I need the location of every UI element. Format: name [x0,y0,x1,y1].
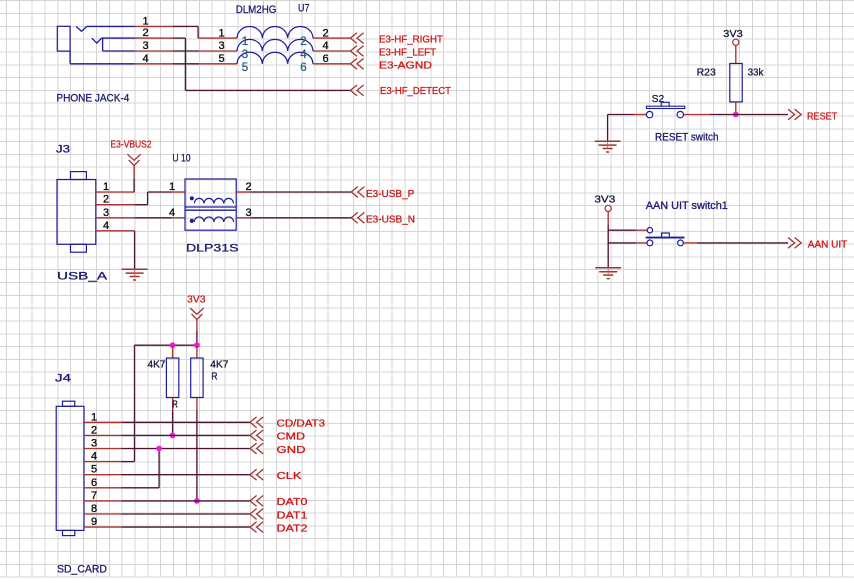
svg-text:3V3: 3V3 [187,295,206,306]
svg-text:8: 8 [91,503,97,515]
svg-text:RESET switch: RESET switch [655,131,719,143]
svg-text:2: 2 [300,36,306,48]
svg-text:J4: J4 [55,372,71,384]
svg-text:4: 4 [169,207,175,219]
svg-text:1: 1 [142,15,148,27]
svg-text:R23: R23 [697,67,717,78]
svg-text:6: 6 [322,53,328,65]
svg-text:2: 2 [91,424,97,436]
svg-text:6: 6 [91,477,97,489]
svg-text:S2: S2 [652,94,665,105]
svg-text:CD/DAT3: CD/DAT3 [277,419,326,430]
svg-text:J3: J3 [56,144,70,156]
svg-text:E3-AGND: E3-AGND [379,60,432,71]
svg-text:2: 2 [103,194,109,206]
svg-text:3: 3 [91,438,97,450]
svg-text:4: 4 [322,40,328,52]
svg-text:E3-USB_P: E3-USB_P [366,189,415,200]
svg-text:5: 5 [91,464,97,476]
svg-text:GND: GND [277,445,306,456]
svg-text:2: 2 [245,181,251,193]
svg-text:E3-HF_LEFT: E3-HF_LEFT [379,48,436,59]
svg-text:6: 6 [300,62,306,74]
svg-text:3: 3 [218,40,224,52]
svg-text:3: 3 [103,207,109,219]
svg-text:U 10: U 10 [172,152,190,164]
svg-text:DLP31S: DLP31S [186,242,239,254]
svg-text:E3-HF_DETECT: E3-HF_DETECT [380,86,451,97]
svg-text:5: 5 [242,62,248,74]
svg-text:2: 2 [142,27,148,39]
svg-text:9: 9 [91,516,97,528]
svg-text:DAT0: DAT0 [277,497,309,508]
svg-text:3: 3 [245,207,251,219]
svg-text:1: 1 [242,36,248,48]
svg-text:PHONE JACK-4: PHONE JACK-4 [56,93,129,105]
svg-text:3V3: 3V3 [723,29,743,40]
svg-text:1: 1 [91,411,97,423]
svg-text:3V3: 3V3 [594,195,615,206]
svg-text:4: 4 [142,53,148,65]
svg-text:4: 4 [300,49,307,61]
svg-text:R: R [172,399,178,410]
svg-text:SD_CARD: SD_CARD [57,563,107,575]
svg-text:DAT2: DAT2 [277,523,309,534]
svg-text:AAN UIT switch1: AAN UIT switch1 [646,200,728,212]
svg-text:4K7: 4K7 [148,359,166,370]
svg-text:4: 4 [91,451,97,463]
svg-text:DAT1: DAT1 [277,510,309,521]
svg-text:RESET: RESET [807,111,837,122]
svg-text:1: 1 [218,27,224,39]
svg-text:R: R [211,371,217,382]
svg-text:DLM2HG: DLM2HG [236,4,277,16]
svg-text:AAN UIT: AAN UIT [808,239,848,250]
svg-text:3: 3 [142,40,148,52]
svg-text:CMD: CMD [277,432,306,443]
svg-text:1: 1 [169,181,175,193]
svg-text:E3-USB_N: E3-USB_N [366,215,415,226]
svg-text:4: 4 [103,220,109,232]
svg-text:CLK: CLK [277,471,302,482]
svg-text:5: 5 [218,53,224,65]
svg-text:7: 7 [91,490,97,502]
svg-text:4K7: 4K7 [210,359,229,370]
svg-text:USB_A: USB_A [57,271,108,283]
svg-text:E3-VBUS2: E3-VBUS2 [111,140,152,151]
svg-text:U7: U7 [298,3,309,15]
svg-text:E3-HF_RIGHT: E3-HF_RIGHT [379,35,443,46]
svg-text:1: 1 [103,181,109,193]
svg-text:33k: 33k [748,67,765,78]
svg-text:2: 2 [322,27,328,39]
svg-text:3: 3 [242,49,248,61]
